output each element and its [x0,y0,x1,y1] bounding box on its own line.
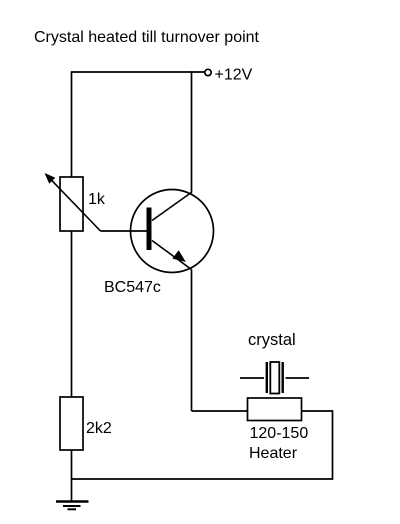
svg-text:Crystal heated till turnover p: Crystal heated till turnover point [34,29,260,46]
resistor R2 body 2k2 [60,397,83,450]
wire: collector up to +12V rail [191,71,193,192]
wire: heater right terminal [302,410,333,412]
wire: emitter to heater left terminal [192,410,248,412]
transistor Q1 circle [131,190,214,273]
wire: wiper to transistor base [101,230,148,232]
svg-text:BC547c: BC547c [104,279,161,296]
wire: left vertical from top rail to potentiometer [71,71,73,177]
crystal left plate [266,362,268,393]
ground symbol [56,500,89,502]
wire: left vertical pot to 2k2 [71,231,73,397]
wire: emitter down [191,270,193,412]
transistor collector stroke [152,192,192,221]
potentiometer wiper arrow shaft [49,177,101,231]
crystal X1 left lead [240,377,264,379]
wire: top rail from left branch to +12V terminal [72,71,205,73]
potentiometer arrowhead [46,174,55,183]
svg-text:+12V: +12V [215,67,253,84]
crystal body rectangle [270,362,279,394]
heater body rectangle [248,398,302,421]
svg-text:1k: 1k [88,191,106,208]
svg-text:crystal: crystal [248,331,296,349]
potentiometer R1 body 1k [60,177,83,231]
+12V terminal circle [205,69,211,75]
svg-text:Heater: Heater [249,445,298,462]
svg-text:120-150: 120-150 [250,425,309,442]
transistor base bar [147,208,152,251]
crystal right plate [282,362,284,393]
wire: bottom return to ground node [72,478,334,480]
transistor emitter stroke [152,241,192,270]
wire: 2k2 to ground [71,450,73,502]
svg-text:2k2: 2k2 [86,420,112,437]
crystal right lead [286,377,310,379]
emitter arrowhead [173,251,185,261]
wire: right vertical down [332,410,334,479]
